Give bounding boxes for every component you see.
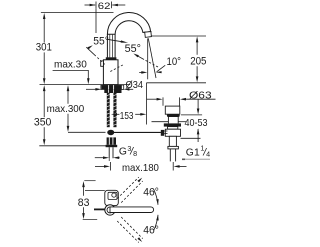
svg-text:46°: 46° — [143, 187, 159, 199]
drain tailpipe — [169, 149, 171, 162]
svg-text:max.300: max.300 — [47, 104, 85, 115]
bottom view cartridge — [108, 192, 117, 199]
bottom view screw — [112, 193, 116, 197]
svg-text:G1: G1 — [186, 147, 200, 158]
dim 205 — [151, 35, 206, 37]
drain deck lines — [152, 121, 169, 123]
spout arcs — [107, 12, 150, 34]
svg-text:G: G — [119, 147, 127, 158]
rotation dashed line right inner — [110, 64, 124, 71]
Ø63 leader arrow — [197, 99, 199, 109]
aerator — [145, 32, 152, 38]
bottom view lever pivot ring — [105, 205, 115, 215]
mounting hardware below deck — [104, 89, 121, 93]
rod joint node — [107, 130, 114, 135]
svg-text:46°: 46° — [143, 225, 159, 237]
outlet axis extension — [146, 83, 148, 125]
svg-text:40-53: 40-53 — [185, 117, 208, 129]
svg-text:153: 153 — [120, 111, 134, 122]
svg-text:Ø63: Ø63 — [189, 90, 212, 101]
drain nut — [165, 129, 180, 136]
dim 62 — [85, 4, 96, 6]
pop-up rod reference — [68, 131, 106, 133]
svg-text:8: 8 — [133, 149, 137, 158]
svg-text:max.30: max.30 — [54, 60, 87, 71]
drain lower flange — [168, 146, 179, 149]
watermark — [182, 159, 185, 161]
supply reference line — [39, 145, 106, 147]
svg-text:205: 205 — [190, 55, 206, 67]
drain knob flange — [167, 114, 180, 117]
bottom view rod — [94, 208, 105, 210]
svg-text:4: 4 — [206, 150, 210, 159]
riser — [106, 34, 108, 57]
pop-up rod — [114, 131, 161, 133]
svg-text:Ø34: Ø34 — [126, 80, 144, 91]
dashed lever rotated — [117, 177, 139, 199]
collar — [106, 57, 117, 60]
tailpiece — [108, 147, 110, 158]
10 deg angle — [147, 38, 149, 79]
handle lever — [101, 61, 104, 66]
dim 350 — [43, 85, 46, 91]
dim 83 — [82, 181, 85, 187]
svg-text:max.180: max.180 — [122, 163, 159, 174]
dim max.300 — [67, 85, 70, 91]
top reference line — [41, 12, 114, 14]
drain body — [168, 127, 178, 130]
dim G3/8 — [95, 157, 104, 159]
svg-text:10°: 10° — [167, 56, 182, 68]
faucet body — [103, 60, 118, 85]
bottom view lever — [110, 207, 154, 213]
drain knob — [165, 106, 180, 114]
svg-text:62: 62 — [98, 1, 111, 12]
svg-text:301: 301 — [36, 42, 52, 54]
drain tube — [169, 136, 176, 146]
svg-text:83: 83 — [78, 197, 90, 209]
dim max.180 — [95, 165, 104, 167]
svg-text:55°: 55° — [125, 43, 141, 55]
drain deck collar — [164, 123, 181, 126]
svg-text:350: 350 — [34, 116, 52, 128]
drain crank — [161, 130, 164, 136]
dim 40-53 — [181, 114, 202, 116]
threaded shank — [107, 93, 110, 127]
svg-text:55°: 55° — [93, 36, 109, 48]
drain neck — [167, 117, 169, 123]
mounting nut — [107, 137, 116, 144]
locknut line — [181, 137, 201, 139]
dim 83 ext lines — [84, 180, 95, 182]
rotation dashed line right — [133, 54, 139, 58]
dim Ø34 — [86, 88, 96, 90]
bottom view body — [105, 190, 119, 205]
dim 153 — [111, 113, 117, 116]
dim 301 — [43, 13, 46, 19]
rotation dashed line left — [87, 45, 92, 49]
deck line — [40, 84, 131, 86]
rotation arc — [154, 189, 158, 204]
55 deg leader left — [106, 39, 121, 41]
escutcheon — [101, 85, 124, 89]
